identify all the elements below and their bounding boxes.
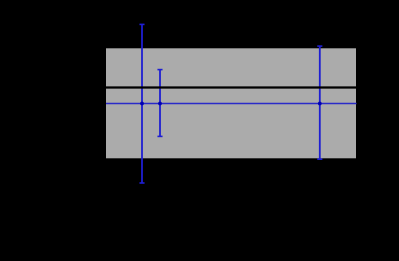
marker point 2 bbox=[158, 102, 162, 106]
gray band (axhspan) bbox=[106, 48, 356, 158]
errorbar 3 vertical bbox=[319, 46, 321, 159]
marker point 1 bbox=[140, 102, 144, 106]
blue horizontal line (fit) bbox=[106, 103, 357, 105]
errorbar 1 top cap bbox=[139, 23, 144, 25]
errorbar 2 top cap bbox=[157, 69, 162, 71]
errorbar 3 top cap bbox=[317, 45, 322, 47]
errorbar 1 vertical bbox=[141, 24, 143, 183]
marker point 3 bbox=[318, 102, 322, 106]
errorbar 2 bottom cap bbox=[157, 135, 162, 137]
black horizontal line (mean), drawn over the error bars bbox=[106, 86, 356, 88]
errorbar 1 bottom cap bbox=[139, 182, 144, 184]
errorbar 3 bottom cap bbox=[317, 158, 322, 160]
errorbar 2 vertical bbox=[159, 70, 161, 137]
